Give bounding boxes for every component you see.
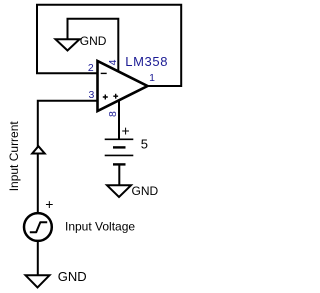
svg-text:GND: GND <box>132 184 159 198</box>
wire pin8 to battery <box>118 100 120 139</box>
ground battery <box>107 185 131 197</box>
wire GND to pin 4 supply loop <box>68 19 119 72</box>
svg-text:4: 4 <box>107 59 119 65</box>
svg-text:GND: GND <box>80 34 107 48</box>
battery V1 5V <box>105 138 134 140</box>
current direction arrow <box>32 146 45 153</box>
svg-text:+: + <box>122 123 130 139</box>
op-amp U1 LM358 <box>98 61 148 111</box>
svg-text:Input Current: Input Current <box>7 121 21 192</box>
wire feedback loop: output pin1 to inverting input pin2 <box>37 5 181 86</box>
source input voltage <box>24 213 52 241</box>
wire battery to ground <box>118 164 120 185</box>
op-amp inverting input marker <box>101 72 107 74</box>
svg-text:3: 3 <box>88 89 94 101</box>
wire pin3 non-inverting input from source <box>38 101 98 213</box>
svg-text:5: 5 <box>141 137 148 152</box>
svg-text:Input Voltage: Input Voltage <box>65 219 135 233</box>
ground bottom <box>26 275 50 287</box>
svg-text:2: 2 <box>88 62 94 74</box>
svg-text:LM358: LM358 <box>125 54 168 69</box>
op-amp positive supply marker <box>113 94 118 99</box>
svg-text:8: 8 <box>107 111 119 117</box>
svg-text:+: + <box>45 196 53 212</box>
op-amp non-inverting input marker <box>103 95 108 100</box>
svg-text:GND: GND <box>58 269 87 284</box>
ground top (op-amp V- supply) <box>56 39 80 50</box>
svg-text:1: 1 <box>149 72 155 84</box>
source waveform <box>30 222 47 232</box>
wire source to bottom ground <box>37 242 39 277</box>
